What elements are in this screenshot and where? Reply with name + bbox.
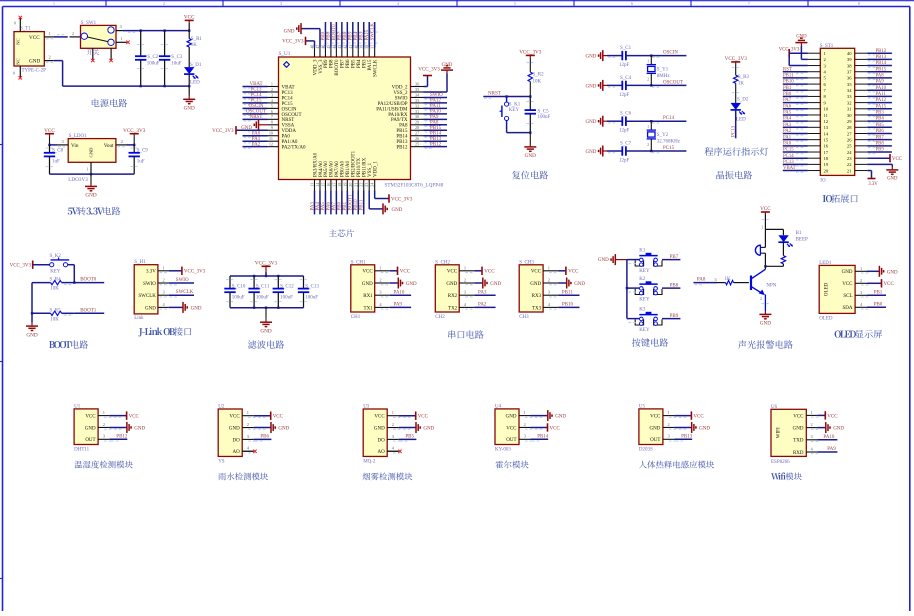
svg-text:PB0/A0: PB0/A0	[341, 160, 346, 177]
svg-text:PB5: PB5	[876, 123, 885, 128]
junction	[140, 85, 142, 87]
svg-text:11: 11	[269, 136, 273, 141]
svg-text:SWCLK: SWCLK	[138, 294, 156, 299]
net label PB12 wire	[424, 142, 448, 149]
svg-text:6: 6	[271, 109, 273, 114]
svg-text:S_C12: S_C12	[280, 284, 294, 289]
svg-text:GND: GND	[506, 415, 517, 420]
net label PA8 wire	[424, 120, 448, 127]
svg-text:GND: GND	[362, 282, 373, 287]
svg-text:GND: GND	[887, 270, 898, 275]
ground	[558, 278, 585, 289]
svg-text:PA4: PA4	[783, 117, 792, 122]
svg-text:GND: GND	[85, 193, 96, 199]
svg-text:23: 23	[847, 156, 852, 161]
svg-text:PA10: PA10	[876, 86, 887, 91]
caption 5V转3.3V电路	[68, 207, 121, 215]
svg-text:VCC: VCC	[827, 414, 838, 419]
svg-text:CH1: CH1	[351, 315, 361, 320]
svg-text:VCC_3V3: VCC_3V3	[519, 50, 542, 56]
svg-text:PB13: PB13	[876, 55, 887, 60]
svg-text:40: 40	[847, 51, 852, 56]
caption 烟雾检测模块	[362, 473, 412, 481]
caption Wifi模块	[771, 472, 802, 480]
svg-text:26: 26	[415, 136, 419, 141]
svg-text:BOOT1: BOOT1	[349, 194, 354, 211]
svg-text:1K: 1K	[738, 81, 745, 86]
connector S_CH3	[519, 260, 558, 320]
power VCC header pin23	[867, 154, 902, 162]
net label PB1 wire	[867, 290, 886, 295]
svg-text:12: 12	[824, 119, 829, 124]
crystal S_Y1 8MHz	[647, 56, 671, 86]
ground	[399, 422, 435, 433]
svg-text:PA1/A0: PA1/A0	[282, 140, 298, 145]
svg-text:PC14: PC14	[663, 116, 675, 121]
junction	[133, 144, 135, 146]
chip right pins 36-25	[411, 81, 424, 146]
svg-text:VCC: VCC	[842, 282, 853, 287]
svg-text:25: 25	[415, 142, 419, 147]
svg-text:PC14: PC14	[282, 96, 294, 101]
svg-text:PA5: PA5	[783, 111, 792, 116]
resistor 1K at base	[725, 277, 749, 285]
svg-text:5: 5	[271, 103, 273, 108]
svg-text:OUT: OUT	[85, 438, 95, 443]
svg-text:VCC: VCC	[85, 415, 96, 420]
svg-text:PA8: PA8	[430, 120, 439, 125]
svg-text:OUT: OUT	[506, 438, 516, 443]
net label PB1 wire	[343, 191, 348, 215]
net label PB10 wire	[783, 80, 808, 87]
svg-text:10: 10	[824, 107, 829, 112]
svg-text:GND: GND	[586, 84, 597, 89]
wire LDO output	[127, 144, 134, 146]
svg-text:VCC_3V3: VCC_3V3	[255, 261, 278, 267]
svg-text:U1: U1	[74, 404, 81, 409]
net label PB6 wire	[343, 22, 350, 48]
svg-text:2: 2	[49, 55, 51, 60]
svg-text:14: 14	[824, 131, 829, 136]
svg-text:31: 31	[847, 107, 852, 112]
svg-text:VBAT: VBAT	[249, 82, 262, 87]
junction	[140, 29, 142, 31]
net label PB3 wire	[867, 111, 892, 118]
svg-text:18: 18	[337, 183, 342, 187]
module U5 D203S	[639, 404, 676, 452]
svg-text:GND: GND	[760, 321, 771, 327]
wire key bus	[626, 260, 628, 319]
svg-text:PB14: PB14	[430, 131, 442, 136]
net label PB5 wire	[399, 435, 417, 442]
svg-text:K3: K3	[639, 308, 646, 313]
svg-text:S_R4: S_R4	[50, 278, 62, 283]
power VCC_3V3 header pin1 pin3	[779, 48, 808, 66]
svg-text:VCC_3V3: VCC_3V3	[725, 56, 748, 62]
svg-text:2: 2	[464, 278, 466, 283]
push button S_K2 KEY	[50, 254, 70, 274]
junction	[253, 275, 255, 277]
LED S_D1	[184, 63, 202, 96]
svg-text:SCL: SCL	[843, 294, 852, 299]
svg-text:PA3/RX/A0: PA3/RX/A0	[313, 152, 318, 177]
svg-text:PA9: PA9	[827, 447, 836, 452]
caption 晶振电路	[716, 171, 752, 179]
ground	[524, 133, 536, 160]
svg-text:GND: GND	[423, 427, 434, 432]
svg-text:27: 27	[847, 131, 852, 136]
net label PA12 wire	[424, 99, 448, 106]
svg-text:PB10: PB10	[783, 80, 794, 85]
power VCC	[390, 267, 411, 275]
net label PA10 wire	[424, 110, 448, 116]
svg-text:U3: U3	[363, 404, 370, 409]
power VCC_3V3 for run LED	[725, 56, 748, 64]
svg-text:SWIO: SWIO	[176, 278, 189, 283]
svg-text:VSS_1: VSS_1	[368, 162, 373, 177]
no-connect X on S_T1 top pin	[19, 16, 22, 19]
svg-text:PB0: PB0	[874, 302, 883, 307]
svg-text:VCC: VCC	[884, 282, 895, 287]
svg-text:13: 13	[824, 125, 829, 130]
wire alarm bottom node	[765, 265, 783, 267]
chip left pins 1-12	[268, 81, 279, 146]
svg-text:PB1/A0: PB1/A0	[346, 160, 351, 177]
svg-text:GND: GND	[650, 426, 661, 431]
svg-text:BOOT0: BOOT0	[335, 59, 340, 76]
svg-text:U4: U4	[495, 404, 502, 409]
svg-text:NRST: NRST	[488, 91, 501, 96]
svg-text:VDDA: VDDA	[282, 129, 297, 134]
svg-text:VCC_3V3: VCC_3V3	[123, 128, 146, 134]
junction	[626, 287, 628, 289]
power VCC	[558, 267, 579, 275]
svg-text:PB7: PB7	[876, 135, 885, 140]
power VCC alarm	[760, 206, 771, 214]
svg-text:PC13: PC13	[732, 125, 737, 137]
net label PA15 wire	[867, 104, 892, 111]
caption 雨水检测模块	[218, 473, 268, 481]
svg-text:36: 36	[415, 81, 419, 86]
svg-text:PC14: PC14	[250, 93, 262, 98]
svg-text:PB6: PB6	[260, 435, 269, 440]
net label PB12 wire	[110, 435, 128, 442]
no-connect X on S_T1 bottom pin	[19, 76, 22, 79]
LED S_D2	[731, 98, 749, 123]
svg-text:2: 2	[163, 1, 165, 6]
svg-text:BOOT0: BOOT0	[80, 278, 97, 283]
svg-text:PB11: PB11	[562, 290, 573, 295]
svg-text:33: 33	[847, 94, 852, 99]
svg-text:GND: GND	[442, 63, 453, 68]
svg-text:24: 24	[370, 182, 375, 187]
svg-text:RST: RST	[783, 67, 792, 72]
svg-text:GND: GND	[796, 35, 807, 40]
svg-text:3.3V: 3.3V	[868, 182, 878, 187]
svg-text:GND: GND	[392, 208, 403, 213]
power VCC	[110, 411, 140, 419]
wire power bottom rail	[54, 61, 189, 87]
svg-text:KEY: KEY	[50, 270, 61, 275]
net label PB12 wire	[867, 49, 892, 56]
svg-text:LED1: LED1	[819, 261, 832, 266]
net label BOOT1 wire	[64, 308, 104, 316]
svg-text:PC13: PC13	[282, 91, 294, 96]
svg-text:3: 3	[271, 92, 273, 97]
net label PB7 wire	[867, 135, 892, 142]
junction	[650, 54, 652, 56]
net label SWCLK wire	[169, 290, 194, 297]
svg-text:6: 6	[631, 1, 634, 6]
svg-text:S_CH3: S_CH3	[519, 260, 534, 265]
power VCC_3V3 at LDO output	[123, 128, 146, 136]
net label PB14 wire	[867, 61, 892, 68]
svg-text:PB13: PB13	[396, 140, 408, 145]
ground	[674, 422, 710, 433]
caption 串口电路	[448, 330, 483, 338]
net label PB13 wire	[867, 55, 892, 62]
svg-text:33: 33	[415, 98, 419, 103]
net label PB6 wire	[867, 129, 892, 136]
svg-text:VCC: VCC	[892, 157, 902, 162]
svg-text:GND: GND	[490, 282, 501, 287]
svg-text:PB8: PB8	[670, 283, 679, 288]
svg-text:29: 29	[415, 120, 419, 125]
power VCC_3V3 reset	[519, 50, 542, 58]
svg-text:35: 35	[847, 82, 852, 87]
svg-text:S_R3: S_R3	[738, 75, 750, 80]
svg-text:29: 29	[847, 119, 852, 124]
svg-text:S_C5: S_C5	[538, 109, 550, 114]
svg-text:1: 1	[464, 265, 466, 270]
svg-text:1: 1	[53, 1, 55, 6]
svg-text:VCC: VCC	[362, 270, 373, 275]
svg-text:3: 3	[548, 290, 551, 295]
ground for S_C6	[586, 116, 607, 127]
svg-text:LED: LED	[190, 81, 200, 86]
caption OLED显示屏	[835, 330, 882, 338]
svg-text:S_C9: S_C9	[137, 149, 149, 154]
svg-text:VDD_2: VDD_2	[392, 85, 408, 90]
svg-text:PB1: PB1	[874, 290, 883, 295]
svg-text:VCC_3V3: VCC_3V3	[282, 40, 304, 45]
power VCC_3V3 jlink	[169, 267, 206, 275]
svg-text:24: 24	[847, 150, 852, 155]
svg-text:VCC: VCC	[273, 415, 284, 420]
net label PA3 wire	[474, 290, 495, 295]
connector S_H1 J-Link	[134, 260, 169, 321]
svg-text:3: 3	[103, 434, 106, 439]
svg-text:3: 3	[120, 24, 123, 29]
svg-text:VCC: VCC	[693, 415, 704, 420]
svg-text:100nF: 100nF	[538, 115, 551, 120]
capacitor S_C8 1uF	[44, 145, 64, 174]
module U4 KY-003	[495, 404, 532, 452]
svg-text:PB11/RX: PB11/RX	[363, 157, 368, 177]
svg-text:4: 4	[860, 302, 863, 307]
svg-text:PB4: PB4	[357, 59, 362, 68]
svg-text:S_C3: S_C3	[171, 55, 183, 60]
svg-text:2: 2	[548, 278, 550, 283]
svg-text:3: 3	[715, 277, 717, 282]
svg-text:PA11: PA11	[430, 104, 441, 109]
svg-text:4: 4	[811, 446, 814, 451]
svg-text:S_C4: S_C4	[620, 76, 632, 81]
svg-text:1K: 1K	[725, 277, 732, 282]
svg-text:PA12/USB/DP: PA12/USB/DP	[378, 102, 408, 107]
svg-text:VCC: VCC	[760, 206, 771, 212]
svg-text:OSCIN: OSCIN	[663, 51, 678, 56]
module U3 MQ-2	[363, 404, 400, 464]
svg-text:PB4: PB4	[876, 117, 885, 122]
power VCC_3V3 at VDD_3 pin 48	[282, 37, 314, 48]
net label PC13 wire	[243, 88, 268, 95]
svg-text:PA7: PA7	[783, 98, 792, 103]
svg-text:GND: GND	[284, 30, 295, 35]
net label NRST wire	[243, 115, 268, 122]
svg-text:DO: DO	[232, 438, 240, 443]
svg-text:39: 39	[847, 57, 852, 62]
svg-text:CH2: CH2	[435, 315, 445, 320]
svg-text:PB8: PB8	[327, 31, 332, 40]
svg-text:4: 4	[163, 302, 166, 307]
net label PA7 wire	[783, 98, 808, 105]
svg-text:PA7/A0: PA7/A0	[335, 161, 340, 177]
resistor S_R1 1K	[187, 31, 202, 68]
svg-text:2: 2	[647, 143, 649, 147]
no-connect X	[387, 450, 399, 452]
svg-text:AO: AO	[232, 450, 240, 455]
svg-text:7: 7	[271, 114, 273, 119]
svg-text:32.768KHz: 32.768KHz	[657, 140, 681, 145]
net label PA4 wire	[316, 191, 321, 215]
svg-text:100uF: 100uF	[232, 296, 245, 301]
svg-text:0: 0	[13, 71, 16, 76]
svg-text:PA11/USB/DM: PA11/USB/DM	[376, 107, 408, 112]
LED in alarm branch	[778, 229, 808, 255]
svg-text:PA2/TX/A0: PA2/TX/A0	[282, 146, 306, 151]
svg-text:PB13: PB13	[681, 435, 693, 440]
svg-text:GND: GND	[89, 147, 94, 158]
svg-text:28: 28	[415, 125, 419, 130]
net label PB8 wire	[327, 22, 334, 48]
svg-text:S_C7: S_C7	[620, 141, 632, 146]
module U1 DHT11	[74, 404, 111, 452]
svg-text:PB3: PB3	[363, 59, 368, 68]
svg-text:GND: GND	[145, 306, 156, 311]
svg-text:LED: LED	[736, 117, 746, 122]
no-connect X on S_SW1 pin 1	[126, 41, 129, 44]
net label PB8 wire	[867, 141, 892, 148]
net label PB5 wire	[867, 123, 892, 130]
svg-text:3: 3	[668, 434, 671, 439]
svg-text:VCC_3V3: VCC_3V3	[779, 48, 800, 53]
net label PA1 wire	[783, 135, 808, 142]
svg-text:VCC: VCC	[531, 270, 542, 275]
svg-text:PB8: PB8	[876, 141, 885, 146]
svg-text:GND: GND	[833, 427, 844, 432]
net label PC13 wire	[732, 110, 737, 139]
svg-text:PA11: PA11	[876, 92, 887, 97]
capacitor S_C4 12pF	[607, 76, 632, 98]
net label VBAT wire	[783, 166, 808, 173]
svg-text:PA6/A0: PA6/A0	[330, 161, 335, 177]
ground at VSS_3 pin 47	[284, 23, 320, 47]
svg-text:PB12: PB12	[876, 49, 887, 54]
svg-text:15: 15	[824, 137, 829, 142]
svg-text:2: 2	[163, 278, 165, 283]
svg-text:1: 1	[762, 225, 764, 229]
junction	[529, 131, 531, 133]
svg-text:PA12: PA12	[876, 98, 887, 103]
net label PB10 wire	[558, 303, 579, 308]
svg-text:TXD: TXD	[793, 439, 804, 444]
net label VBAT wire	[243, 82, 268, 89]
svg-text:RX2: RX2	[448, 294, 458, 299]
svg-text:PB7: PB7	[341, 59, 346, 68]
net label OSCOUT wire	[626, 80, 687, 87]
capacitor S_C13 100uF	[298, 276, 320, 308]
svg-text:VBAT: VBAT	[783, 166, 796, 171]
push button K3 KEY	[627, 308, 663, 334]
svg-text:RX3: RX3	[532, 294, 542, 299]
svg-text:BEEP: BEEP	[796, 238, 808, 243]
svg-text:36: 36	[847, 76, 852, 81]
svg-text:PA0: PA0	[282, 135, 291, 140]
svg-text:2: 2	[524, 422, 526, 427]
svg-text:4: 4	[271, 98, 274, 103]
wire power top rail	[123, 31, 190, 33]
svg-text:VCC: VCC	[447, 270, 458, 275]
power VCC wifi	[817, 411, 838, 419]
net label PA9 wire	[867, 80, 892, 87]
ground	[390, 278, 417, 289]
svg-text:PB12: PB12	[396, 146, 408, 151]
svg-text:10: 10	[269, 131, 273, 136]
caption 程序运行指示灯	[705, 147, 769, 155]
resistor S_R5 10K	[32, 308, 74, 322]
ground wifi	[817, 422, 844, 433]
caption 霍尔模块	[496, 461, 529, 469]
net label PB14 wire	[424, 131, 448, 138]
svg-text:S_C1: S_C1	[620, 46, 632, 51]
svg-text:16: 16	[824, 144, 829, 149]
svg-text:GND: GND	[574, 282, 585, 287]
svg-text:PB5: PB5	[349, 31, 354, 40]
svg-text:GND: GND	[134, 426, 145, 431]
svg-text:8MHz: 8MHz	[657, 74, 671, 79]
power VCC_3V3 at VDDA pin 9	[212, 126, 267, 134]
ground header pin2	[795, 35, 808, 60]
svg-text:PB15: PB15	[396, 129, 408, 134]
net label PA0 wire	[243, 131, 268, 138]
net label PA11 wire	[867, 92, 892, 99]
svg-text:15: 15	[320, 183, 325, 187]
net label PB4 wire	[867, 117, 892, 124]
svg-text:PB9: PB9	[321, 31, 326, 40]
caption 电源电路	[92, 99, 127, 107]
svg-text:1K: 1K	[191, 43, 198, 48]
svg-text:2: 2	[379, 278, 381, 283]
net label PB7 wire	[629, 255, 681, 264]
svg-text:GND: GND	[184, 106, 195, 112]
svg-text:VCC_3V3: VCC_3V3	[418, 68, 440, 73]
svg-text:2: 2	[860, 278, 862, 283]
svg-text:PB9: PB9	[670, 314, 679, 319]
svg-text:14: 14	[315, 182, 320, 187]
svg-text:PB0: PB0	[783, 92, 792, 97]
svg-text:GND: GND	[887, 177, 898, 182]
